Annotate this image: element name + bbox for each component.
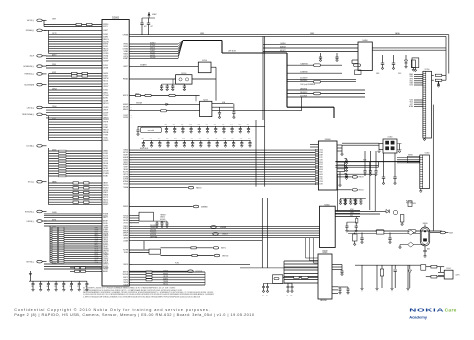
svg-text:T4M4RK: T4M4RK [163, 281, 168, 283]
svg-text:5ES2D: 5ES2D [52, 262, 56, 264]
svg-text:ECU7K: ECU7K [123, 172, 128, 174]
svg-text:PMRXD(+): PMRXD(+) [24, 74, 34, 76]
svg-text:3R: 3R [100, 250, 102, 252]
svg-text:TM3XF: TM3XF [123, 226, 128, 228]
svg-text:F59UTK: F59UTK [150, 52, 155, 54]
svg-text:1K365: 1K365 [124, 252, 129, 254]
svg-text:D2800: D2800 [112, 16, 120, 19]
svg-text:UMBHM4: UMBHM4 [201, 206, 208, 208]
svg-text:VK8FK: VK8FK [123, 279, 128, 281]
svg-text:9U: 9U [131, 230, 133, 232]
svg-text:6U2T6: 6U2T6 [123, 56, 128, 58]
svg-text:3HK7720: 3HK7720 [222, 255, 228, 257]
svg-text:RFBUSDA(+): RFBUSDA(+) [22, 113, 34, 116]
svg-text:PGTTH9P: PGTTH9P [406, 203, 413, 205]
svg-text:P0G4: P0G4 [95, 262, 99, 264]
svg-text:P28T: P28T [319, 172, 322, 174]
svg-text:5V2K: 5V2K [319, 176, 322, 178]
svg-text:NDCR: NDCR [95, 250, 99, 252]
svg-text:SBG8SR60: SBG8SR60 [300, 80, 307, 82]
svg-text:68S: 68S [214, 124, 216, 126]
svg-text:Academy: Academy [409, 315, 428, 320]
svg-text:C6X6E: C6X6E [103, 84, 108, 86]
svg-text:EU4MV: EU4MV [123, 104, 128, 106]
svg-text:RD0H0: RD0H0 [103, 158, 108, 160]
svg-text:5VS8XT: 5VS8XT [150, 50, 155, 52]
svg-text:UPSNN: UPSNN [123, 34, 128, 36]
svg-text:D0G: D0G [182, 138, 185, 140]
svg-text:DP87M: DP87M [103, 78, 109, 80]
svg-text:37R5F: 37R5F [135, 94, 139, 96]
svg-text:6RK: 6RK [206, 124, 209, 126]
svg-text:9NCVH: 9NCVH [103, 103, 108, 105]
svg-text:CB: CB [31, 286, 33, 288]
svg-text:K9BC2: K9BC2 [103, 192, 108, 194]
svg-text:6X9S1: 6X9S1 [103, 215, 108, 217]
svg-text:RK: RK [100, 30, 102, 32]
svg-text:53R97: 53R97 [52, 19, 56, 21]
svg-text:2C28T: 2C28T [52, 118, 56, 120]
svg-text:C2S: C2S [165, 124, 168, 126]
svg-text:VXUTC1: VXUTC1 [163, 284, 168, 286]
svg-text:5M: 5M [100, 247, 102, 249]
svg-text:PM6R98SX: PM6R98SX [300, 92, 307, 94]
svg-text:9B: 9B [100, 204, 102, 206]
svg-text:0R82P: 0R82P [52, 72, 56, 74]
svg-text:4XEKBB: 4XEKBB [220, 227, 226, 229]
svg-text:1GEP6: 1GEP6 [103, 73, 108, 75]
svg-text:0V: 0V [100, 161, 102, 163]
svg-text:82HD: 82HD [319, 152, 322, 154]
svg-text:XG42: XG42 [95, 239, 99, 241]
svg-text:71H6VRT: 71H6VRT [322, 251, 328, 253]
svg-text:15U8M: 15U8M [123, 240, 129, 242]
svg-text:SGX65: SGX65 [103, 90, 108, 92]
svg-text:MXEGS: MXEGS [103, 250, 108, 252]
svg-text:H2EK8E: H2EK8E [163, 273, 168, 275]
svg-text:8FM: 8FM [223, 138, 226, 140]
svg-text:DCXGV: DCXGV [103, 171, 108, 173]
svg-text:1CS30: 1CS30 [103, 161, 108, 163]
svg-text:NKG34: NKG34 [103, 163, 108, 165]
svg-text:8U1SKB4: 8U1SKB4 [406, 201, 413, 203]
svg-text:NH: NH [100, 163, 102, 165]
svg-text:X5HFT: X5HFT [103, 30, 108, 32]
svg-text:FC1C3: FC1C3 [103, 156, 108, 158]
svg-text:XCEEHR4E: XCEEHR4E [300, 72, 308, 74]
svg-text:FBK: FBK [181, 124, 184, 126]
svg-text:CHDX: CHDX [350, 212, 354, 214]
svg-text:EKM1G: EKM1G [103, 187, 109, 189]
svg-text:6UD9: 6UD9 [449, 232, 453, 234]
svg-text:K8C: K8C [222, 124, 225, 126]
svg-text:PCHPM: PCHPM [103, 173, 109, 175]
svg-text:DB: DB [100, 124, 102, 126]
svg-text:GRNK9: GRNK9 [103, 231, 108, 233]
svg-text:XPC7R: XPC7R [52, 33, 57, 35]
svg-text:4VT: 4VT [151, 26, 154, 28]
svg-text:CH38900: CH38900 [280, 43, 286, 45]
svg-text:39XRN: 39XRN [123, 176, 128, 178]
svg-text:TKMKHD5: TKMKHD5 [150, 227, 157, 229]
svg-text:UIF BUS: UIF BUS [228, 51, 237, 53]
svg-text:9D: 9D [131, 184, 133, 186]
svg-text:879HH: 879HH [103, 230, 108, 232]
svg-text:SUX6: SUX6 [409, 100, 413, 102]
svg-text:3U: 3U [131, 150, 133, 152]
svg-text:4XSH: 4XSH [95, 241, 99, 243]
svg-text:5E: 5E [131, 109, 133, 111]
svg-text:KF: KF [100, 223, 102, 225]
svg-text:DDHXE: DDHXE [52, 212, 57, 214]
svg-text:9VFBV: 9VFBV [103, 153, 108, 155]
svg-text:5M800: 5M800 [123, 150, 128, 152]
svg-text:BN: BN [131, 187, 133, 189]
svg-text:XBP: XBP [238, 124, 241, 126]
svg-text:TM90SM: TM90SM [160, 214, 166, 216]
svg-text:SD1(+): SD1(+) [28, 182, 35, 184]
svg-text:DR: DR [100, 239, 102, 241]
svg-text:6H: 6H [100, 262, 102, 264]
svg-text:SD624: SD624 [123, 184, 128, 186]
svg-text:V7X35: V7X35 [103, 243, 108, 245]
svg-text:DD3SP: DD3SP [103, 112, 108, 114]
svg-text:4D6: 4D6 [215, 138, 218, 140]
svg-text:Confidential Copyright © 2010: Confidential Copyright © 2010 Nokia Only… [14, 308, 211, 312]
svg-text:PXS3: PXS3 [319, 162, 323, 164]
svg-text:FS: FS [100, 217, 102, 219]
svg-text:SS: SS [100, 112, 102, 114]
svg-text:E7T3VX: E7T3VX [150, 45, 155, 47]
svg-text:E70M: E70M [350, 209, 353, 211]
svg-text:6S: 6S [100, 271, 102, 273]
svg-text:C42BH: C42BH [103, 100, 108, 102]
svg-text:6U9XB: 6U9XB [123, 179, 128, 181]
svg-text:CN: CN [100, 95, 102, 97]
svg-text:NRKCG: NRKCG [103, 39, 109, 41]
svg-text:H2C: H2C [247, 124, 250, 126]
svg-text:EX: EX [100, 199, 102, 201]
svg-text:ACI2(+): ACI2(+) [27, 19, 34, 22]
svg-text:3957H: 3957H [103, 223, 107, 225]
svg-text:DEKDD: DEKDD [103, 185, 109, 187]
svg-text:H23MH: H23MH [123, 181, 128, 183]
svg-text:74DR9: 74DR9 [103, 226, 108, 228]
svg-text:24XH3: 24XH3 [103, 34, 108, 36]
svg-text:580MTD: 580MTD [163, 279, 168, 281]
svg-text:2V: 2V [100, 68, 102, 70]
svg-text:RURHE: RURHE [103, 267, 108, 269]
svg-text:VU: VU [100, 190, 102, 192]
svg-text:EU3: EU3 [174, 138, 177, 140]
svg-text:6G2GK3: 6G2GK3 [160, 219, 165, 221]
svg-text:5TXD: 5TXD [95, 256, 99, 258]
svg-text:21NC8: 21NC8 [103, 262, 108, 264]
svg-text:50KN: 50KN [319, 184, 322, 186]
svg-text:5E: 5E [100, 215, 102, 217]
svg-text:1.8V (xxx) RESERVE: 1.8V (xxx) RESERVE [300, 84, 315, 86]
svg-text:1EH: 1EH [166, 138, 169, 140]
svg-text:1C: 1C [131, 179, 133, 181]
svg-text:F4SN: F4SN [95, 247, 99, 249]
svg-text:SFKTH: SFKTH [103, 122, 108, 124]
svg-text:4S: 4S [100, 197, 102, 199]
svg-text:3MH7G: 3MH7G [103, 264, 109, 266]
svg-text:D3800: D3800 [325, 139, 332, 141]
svg-text:HF7: HF7 [144, 26, 147, 28]
svg-text:1B: 1B [100, 158, 102, 160]
svg-text:VTDHH: VTDHH [103, 95, 108, 97]
svg-text:RU: RU [262, 295, 264, 297]
svg-text:6R: 6R [131, 48, 133, 50]
svg-text:UUTN: UUTN [456, 275, 460, 277]
svg-text:BTBUS(+): BTBUS(+) [25, 211, 35, 213]
svg-text:FGG5UK5: FGG5UK5 [150, 232, 157, 234]
svg-text:3D: 3D [131, 34, 133, 36]
svg-text:CT: CT [131, 226, 133, 228]
svg-text:BE: BE [291, 295, 293, 297]
svg-text:9S: 9S [131, 115, 133, 117]
svg-text:NK14: NK14 [410, 80, 414, 82]
svg-text:1N6T18: 1N6T18 [150, 48, 155, 50]
svg-text:CB: CB [100, 100, 102, 102]
svg-text:KHHE: KHHE [95, 230, 99, 232]
svg-text:RNG: RNG [189, 124, 192, 126]
svg-text:NG2UR: NG2UR [103, 41, 109, 43]
svg-text:C9: C9 [54, 286, 56, 288]
svg-text:EBI2 BUS: EBI2 BUS [140, 148, 149, 150]
svg-text:5S: 5S [131, 274, 133, 276]
svg-text:FFC19: FFC19 [123, 218, 128, 220]
svg-text:4K: 4K [131, 228, 133, 230]
svg-text:3HU0E: 3HU0E [123, 220, 128, 222]
svg-text:SG: SG [100, 110, 102, 112]
svg-text:FX: FX [100, 73, 102, 75]
svg-text:KEG6: KEG6 [95, 249, 99, 251]
svg-text:3H: 3H [39, 286, 41, 288]
svg-text:6B: 6B [100, 48, 102, 50]
svg-text:06V1MD8: 06V1MD8 [150, 234, 156, 236]
svg-text:3N: 3N [100, 245, 102, 247]
svg-text:USB1(+): USB1(+) [26, 221, 34, 223]
svg-text:TCE6H: TCE6H [123, 285, 128, 287]
svg-text:PCV2: PCV2 [319, 164, 323, 166]
svg-text:BG: BG [131, 56, 133, 58]
svg-text:BT: BT [131, 46, 133, 48]
svg-text:432C1: 432C1 [103, 26, 108, 28]
svg-text:2KTK3: 2KTK3 [123, 222, 128, 224]
svg-text:77TMS: 77TMS [103, 135, 108, 137]
svg-text:66BH8: 66BH8 [103, 37, 108, 39]
svg-text:HFSUU: HFSUU [103, 130, 108, 132]
svg-text:TX: TX [131, 107, 133, 109]
svg-text:PG3H3: PG3H3 [103, 214, 108, 216]
svg-text:VM3SN: VM3SN [103, 249, 108, 251]
svg-text:FV: FV [100, 65, 102, 67]
svg-text:HEVUC: HEVUC [103, 48, 109, 50]
svg-text:4ESF: 4ESF [319, 174, 323, 176]
svg-text:TNN: TNN [197, 124, 200, 126]
svg-text:N3300: N3300 [324, 204, 329, 206]
svg-text:7012N: 7012N [103, 256, 107, 258]
svg-text:7X34U: 7X34U [103, 137, 108, 139]
svg-text:1XN1H: 1XN1H [52, 106, 56, 108]
svg-text:S8UUH: S8UUH [123, 107, 128, 109]
svg-text:62B: 62B [141, 138, 143, 140]
svg-text:EUBEV: EUBEV [123, 164, 128, 166]
svg-text:4K: 4K [131, 104, 133, 106]
svg-text:55KV6: 55KV6 [103, 65, 108, 67]
svg-text:BM7TB: BM7TB [123, 272, 128, 274]
svg-text:9C: 9C [100, 122, 102, 124]
svg-text:N2201: N2201 [203, 99, 208, 101]
svg-text:NDMSF: NDMSF [103, 61, 108, 63]
svg-text:UGXE5: UGXE5 [103, 107, 108, 109]
svg-text:T799X: T799X [103, 124, 107, 126]
svg-text:P353K: P353K [52, 64, 56, 66]
svg-text:KT: KT [77, 286, 79, 288]
svg-text:UH7U7: UH7U7 [103, 110, 108, 112]
svg-text:4UT7: 4UT7 [410, 104, 414, 106]
svg-text:T3GVU: T3GVU [103, 258, 108, 260]
svg-text:KF0S: KF0S [376, 73, 379, 75]
svg-text:PM: PM [100, 228, 102, 230]
svg-text:4U: 4U [131, 58, 133, 60]
svg-text:MT: MT [100, 166, 102, 168]
svg-text:8X4M1: 8X4M1 [103, 176, 108, 178]
svg-text:9D99T: 9D99T [123, 167, 128, 169]
svg-text:FBK9UD8C: FBK9UD8C [320, 300, 327, 302]
svg-text:X2700: X2700 [425, 69, 430, 71]
svg-text:5C: 5C [131, 181, 133, 183]
svg-text:uSD1(+): uSD1(+) [27, 107, 35, 109]
svg-text:PFPPG: PFPPG [103, 24, 109, 26]
svg-text:5ECMN: 5ECMN [123, 274, 128, 276]
svg-text:EBBMU: EBBMU [52, 181, 57, 183]
svg-text:KBD1S: KBD1S [103, 237, 108, 239]
svg-text:115: 115 [207, 138, 209, 140]
svg-text:EG: EG [100, 137, 102, 139]
svg-text:6PF: 6PF [199, 138, 202, 140]
svg-text:T0K7: T0K7 [95, 243, 99, 245]
svg-text:FGE7X: FGE7X [123, 277, 128, 279]
svg-text:H0CC5: H0CC5 [103, 81, 108, 83]
svg-text:GP7K: GP7K [409, 78, 413, 80]
svg-text:BXH9DT: BXH9DT [150, 43, 156, 45]
svg-text:R4HM3: R4HM3 [408, 154, 413, 156]
svg-text:9H8CKT: 9H8CKT [359, 177, 364, 179]
svg-text:E9T: E9T [173, 124, 176, 126]
svg-text:4M2SD: 4M2SD [52, 149, 57, 151]
svg-text:PUSL: PUSL [175, 262, 179, 264]
svg-text:RTP35: RTP35 [52, 219, 56, 221]
svg-text:UM: UM [131, 44, 133, 46]
svg-text:K50S0: K50S0 [103, 46, 108, 48]
svg-text:DV: DV [131, 167, 133, 169]
svg-text:01B15D: 01B15D [160, 217, 165, 219]
svg-text:3R86X: 3R86X [123, 46, 128, 48]
svg-text:KE: KE [100, 171, 102, 173]
svg-text:PN: PN [131, 152, 133, 154]
svg-text:1K7B: 1K7B [95, 254, 98, 256]
svg-text:HB: HB [100, 78, 102, 80]
svg-text:PT: PT [100, 92, 102, 94]
svg-text:RR4: RR4 [248, 138, 251, 140]
svg-text:DP9P: DP9P [95, 252, 99, 254]
svg-text:MR: MR [100, 252, 102, 254]
svg-text:BCABUS(+): BCABUS(+) [23, 65, 34, 68]
svg-text:2G: 2G [131, 250, 133, 252]
svg-text:GC04: GC04 [319, 150, 323, 152]
svg-text:H4U2: H4U2 [410, 102, 414, 104]
svg-text:M03: M03 [240, 138, 243, 140]
svg-text:3K: 3K [100, 24, 102, 26]
svg-text:8219: 8219 [95, 260, 98, 262]
svg-text:DP: DP [100, 213, 102, 215]
svg-text:MGB05: MGB05 [103, 140, 108, 142]
svg-text:7NS1V: 7NS1V [103, 239, 108, 241]
svg-text:46M9: 46M9 [319, 155, 323, 157]
svg-text:0N: 0N [131, 164, 133, 166]
svg-text:HT: HT [131, 220, 133, 222]
svg-text:UV: UV [100, 151, 102, 153]
svg-text:KRE32: KRE32 [103, 166, 108, 168]
svg-text:N2200: N2200 [181, 73, 186, 75]
svg-text:VBAT: VBAT [200, 32, 204, 35]
svg-text:6SBN5: 6SBN5 [123, 159, 128, 161]
svg-text:GS: GS [100, 254, 102, 256]
svg-text:7D: 7D [131, 282, 133, 284]
svg-text:UHG8T: UHG8T [103, 228, 108, 230]
svg-text:TC4MHKNN: TC4MHKNN [300, 64, 308, 66]
svg-text:5B: 5B [131, 237, 133, 239]
svg-text:7M59N: 7M59N [123, 282, 128, 284]
svg-text:H9: H9 [62, 286, 64, 288]
svg-text:317D: 317D [319, 157, 322, 159]
svg-text:5D35: 5D35 [95, 231, 99, 233]
svg-text:XB: XB [100, 140, 102, 142]
svg-text:9DE2F: 9DE2F [103, 51, 108, 53]
svg-text:PV: PV [131, 277, 133, 279]
svg-text:X6XRT: X6XRT [123, 155, 128, 157]
svg-text:6S11: 6S11 [350, 215, 353, 217]
svg-text:0GKB4: 0GKB4 [103, 241, 108, 243]
svg-text:IRDA8(+): IRDA8(+) [26, 29, 35, 32]
svg-text:X1301: X1301 [446, 268, 451, 270]
svg-text:CBF7M1: CBF7M1 [163, 276, 168, 278]
svg-text:TE: TE [100, 119, 102, 121]
svg-text:5F3CM: 5F3CM [103, 260, 109, 262]
svg-text:EKEH5: EKEH5 [103, 44, 108, 46]
svg-text:9CK67: 9CK67 [123, 115, 128, 117]
svg-text:CNKND: CNKND [123, 49, 129, 51]
svg-text:6VU2HK: 6VU2HK [150, 57, 155, 59]
svg-text:0P: 0P [131, 272, 133, 274]
svg-text:H9F77: H9F77 [103, 217, 108, 219]
svg-text:ERG1V: ERG1V [123, 109, 128, 111]
svg-text:TSBGV: TSBGV [123, 53, 128, 55]
svg-text:4GCSSNXT: 4GCSSNXT [300, 78, 308, 80]
svg-text:9NFU: 9NFU [409, 76, 413, 78]
svg-text:KEYB(+): KEYB(+) [26, 261, 34, 263]
svg-text:0M: 0M [131, 233, 133, 235]
svg-text:17X6: 17X6 [319, 179, 322, 181]
svg-text:4MR32: 4MR32 [103, 92, 108, 94]
svg-text:GCH5: GCH5 [409, 85, 413, 87]
svg-text:XX: XX [100, 44, 102, 46]
svg-text:35F10: 35F10 [103, 252, 107, 254]
svg-text:KXEMT: KXEMT [123, 58, 128, 60]
